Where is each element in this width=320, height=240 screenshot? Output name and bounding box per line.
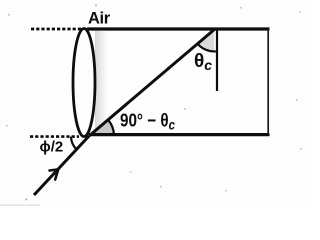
svg-text:90° − θc: 90° − θc <box>120 110 175 133</box>
svg-text:ϕ/2: ϕ/2 <box>40 139 64 156</box>
svg-text:Air: Air <box>88 10 111 28</box>
